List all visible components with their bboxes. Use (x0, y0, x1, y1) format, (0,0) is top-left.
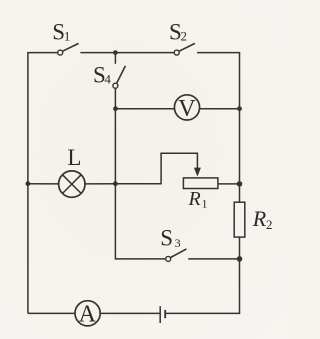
node: voltmeter branch / right side (237, 106, 242, 111)
wire: voltmeter branch left segment (115, 108, 174, 110)
node: left side / lamp branch (26, 181, 31, 186)
svg-text:R: R (252, 206, 267, 231)
svg-text:S: S (160, 226, 173, 251)
svg-text:A: A (79, 302, 97, 328)
label S3 (160, 226, 180, 251)
wire: rheostat wiper feed (node to elbow up and over) (115, 153, 197, 183)
svg-text:L: L (67, 145, 81, 170)
wire: R1 to right side node (218, 183, 240, 185)
wire: middle vertical from S4 down to S3 corner (115, 88, 165, 259)
wire: voltmeter branch right segment (200, 108, 240, 110)
svg-text:V: V (178, 96, 196, 122)
svg-text:2: 2 (181, 29, 188, 44)
label S4 (93, 62, 111, 87)
rheostat wiper arrow (194, 168, 201, 177)
lamp L (59, 171, 85, 197)
wire: middle vertical stub from top node down to S4 (114, 53, 116, 64)
label R2 (252, 206, 273, 232)
node: lamp branch / middle branch (113, 181, 118, 186)
switch S3 (166, 249, 187, 262)
resistor R2 (234, 202, 245, 237)
svg-text:1: 1 (202, 197, 208, 211)
voltmeter U-V (174, 95, 199, 120)
node: middle branch / voltmeter branch (113, 106, 118, 111)
wire: S3 to right side node (188, 258, 239, 260)
wire: ammeter to battery (100, 312, 159, 314)
label S1 (52, 19, 70, 44)
switch S4 (113, 66, 126, 88)
svg-text:2: 2 (266, 217, 273, 232)
wire: top side, S2 to right corner (197, 52, 240, 54)
wire: bottom side, left corner to ammeter (28, 312, 75, 314)
wire: right vertical side above R2 (239, 53, 241, 203)
rheostat R1 body (183, 178, 218, 189)
switch S1 (58, 43, 79, 55)
label S2 (169, 19, 187, 44)
battery cell (160, 306, 165, 323)
wire: lamp branch right segment (85, 183, 115, 185)
ammeter U-A (75, 301, 100, 326)
svg-text:3: 3 (175, 236, 181, 250)
wire: right vertical side below R2 (239, 237, 241, 313)
node: S3 / right side (237, 256, 243, 262)
wire: top side, S1 to S2 (passes node at x=115.4) (80, 52, 174, 54)
node: top of middle branch (113, 50, 118, 55)
wire: top side, left corner to switch S1 (27, 52, 58, 54)
label R1 (188, 188, 208, 211)
svg-text:4: 4 (104, 72, 111, 87)
wire: left vertical side (27, 53, 29, 314)
wire: battery to bottom right corner (165, 312, 240, 314)
switch S2 (174, 43, 195, 55)
svg-text:R: R (188, 188, 201, 210)
node: R1 / right side (237, 181, 243, 187)
svg-text:1: 1 (64, 29, 71, 44)
wire: lamp branch left segment (28, 183, 59, 185)
